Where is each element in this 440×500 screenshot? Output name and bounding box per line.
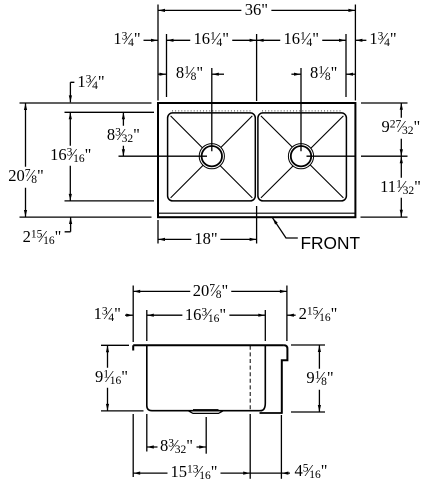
hidden dashed line <box>249 346 251 410</box>
9 27/32 + 11 1/32 dim line <box>400 103 402 217</box>
dim 9 1/16" <box>92 368 131 389</box>
drain masks <box>199 144 224 169</box>
18 dim <box>158 238 257 240</box>
diagonals right bowl <box>261 116 344 198</box>
dim 16 3/16" <box>47 145 94 166</box>
dim 36" <box>242 1 271 20</box>
ext vert bowl edges / center <box>166 34 168 97</box>
sink outer rectangle (plan) <box>158 103 355 217</box>
1 3/4 top-left leader <box>70 82 75 102</box>
dim 8 1/8" right <box>307 64 340 85</box>
bowl right <box>258 113 347 201</box>
drain left outer circle <box>199 144 224 169</box>
9 1/16 left <box>101 344 129 346</box>
4 5/16 dim <box>250 472 290 474</box>
top right rounded corner + outer apron face + step <box>282 345 288 413</box>
8 3/32 dim <box>147 446 206 448</box>
right ext horizontals <box>361 102 408 104</box>
drain recess trapezoid <box>188 411 224 414</box>
dim 16 3/16" section <box>182 306 229 327</box>
row2 <box>125 314 133 316</box>
dim 11 1/32" <box>377 177 424 198</box>
back wall w/ fillet <box>147 345 152 410</box>
rim top line <box>133 344 284 346</box>
dim 1 3/4" row2 right <box>366 30 399 51</box>
diagonals left bowl <box>171 116 253 198</box>
8 3/32 dim line <box>122 112 124 156</box>
dim 4 5/16" <box>291 462 330 483</box>
apron bottom line <box>260 412 283 414</box>
36 dim line <box>158 9 355 11</box>
dim 18" <box>191 230 220 249</box>
9 1/8 right <box>291 344 325 346</box>
dimension arrowheads, top view <box>158 9 165 12</box>
20 7/8 dim line <box>25 103 27 217</box>
dim 1 3/4" section <box>91 305 124 326</box>
drain right inner circle <box>291 146 311 166</box>
dim 8 1/8" left <box>173 64 206 85</box>
dim 1 3/4" top-left vertical <box>74 73 107 94</box>
dim 8 3/32" <box>104 126 143 147</box>
dim 20 7/8" <box>5 167 47 188</box>
front lip line (plan, full width w/ extension segments) <box>20 216 408 218</box>
row2 dim lines <box>144 39 159 41</box>
bowl right rim dotted line <box>262 110 342 112</box>
dim 16 1/4" right <box>281 30 323 51</box>
dim 9 27/32" <box>379 118 424 139</box>
dim 1 3/4" row2 left <box>110 30 143 51</box>
ext vert right edge <box>354 5 356 101</box>
row3 dim lines 8 1/8 <box>158 73 167 75</box>
dimension arrowheads, section view <box>133 290 140 293</box>
left flange tick <box>132 345 134 350</box>
FRONT leader <box>273 218 298 238</box>
crosshair stubs into drains <box>158 112 355 156</box>
label FRONT <box>301 235 361 252</box>
front interior wall w/ fillet <box>261 345 266 410</box>
2 15/16 leader <box>61 217 71 232</box>
drain left inner circle <box>202 146 222 166</box>
ext vert drains above <box>211 68 213 112</box>
bowl left rim dotted line <box>172 110 251 112</box>
bottom line (basin interior) <box>152 410 262 412</box>
drain right outer circle <box>288 144 313 169</box>
dim 16 1/4" left <box>191 30 233 51</box>
dim 8 3/32" section <box>157 437 196 458</box>
dim 2 15/16" section <box>296 305 341 326</box>
20 7/8 dim <box>133 290 287 292</box>
left ext horizontals <box>20 102 152 104</box>
drain recess inner line <box>193 408 219 410</box>
bowl left <box>168 113 256 201</box>
bottom ext verticals <box>132 414 134 477</box>
front lip inner line (plan) <box>158 212 355 214</box>
dim 15 13/16" <box>167 462 220 483</box>
dim 9 1/8" <box>303 369 336 390</box>
15 13/16 dim <box>133 472 250 474</box>
16 3/16 dim line <box>69 112 71 201</box>
ext vert left edge <box>157 5 159 101</box>
dim 2 15/16" <box>20 228 65 249</box>
dim 20 7/8" section <box>190 281 232 302</box>
